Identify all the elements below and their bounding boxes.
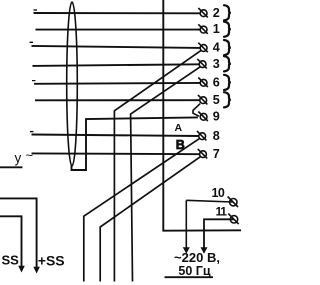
terminal 6 [198, 78, 208, 88]
brace 6 [224, 75, 231, 90]
terminal 3 [197, 59, 207, 69]
riser wire with diagonal to terminal 7 [100, 157, 200, 282]
wire 1 (to terminal 2) [34, 12, 201, 14]
brace 1 [224, 22, 231, 37]
svg-text:SS: SS [2, 252, 20, 267]
svg-text:~: ~ [26, 148, 34, 163]
svg-text:9: 9 [213, 109, 220, 123]
terminal 5 [198, 95, 208, 105]
jumper terminal 5 to terminal 9 [193, 104, 200, 117]
svg-text:A: A [175, 122, 183, 134]
tick artifact wire 3 [30, 41, 34, 43]
arrowhead SS [18, 266, 25, 273]
tick artifact wire 7 [30, 131, 34, 133]
tick artifact wire 5 [32, 80, 36, 82]
svg-text:7: 7 [213, 147, 220, 161]
svg-text:В: В [176, 138, 185, 152]
terminal 10 with wire and mains drop [186, 200, 232, 202]
svg-text:50 Гц: 50 Гц [178, 264, 210, 278]
wire 8 (to terminal 7) [32, 152, 200, 155]
terminal 8 [197, 131, 207, 141]
riser wire with diagonal to terminal 3 [131, 67, 201, 282]
underline 50 Hz [165, 276, 214, 278]
svg-text:3: 3 [213, 57, 220, 71]
left wire to +SS with down arrow [0, 198, 37, 268]
terminal 9 [198, 112, 208, 122]
brace 5 [224, 92, 231, 107]
svg-text:2: 2 [213, 6, 220, 20]
brace 4 [224, 40, 231, 55]
left wire to SS with down arrow [0, 216, 22, 267]
terminal 2 [198, 8, 208, 18]
wire 5 (to terminal 6) [34, 82, 200, 85]
wire 7 (to terminal 8) [32, 135, 200, 137]
wire 6 (to terminal 5) [35, 99, 200, 101]
brace 3 [224, 56, 231, 71]
shield drain wire to terminal 9 [72, 117, 198, 170]
svg-text:11: 11 [216, 205, 228, 219]
svg-text:4: 4 [213, 41, 220, 55]
svg-text:~220 В,: ~220 В, [174, 250, 220, 265]
terminal 4 [198, 43, 208, 53]
riser wire with diagonal to terminal 4 [114, 51, 200, 282]
svg-text:1: 1 [213, 22, 220, 36]
terminal 7 [198, 149, 208, 159]
svg-text:10: 10 [212, 186, 225, 200]
wire 2 (to terminal 1) [36, 29, 201, 31]
wire corner down from terminal 10 [185, 200, 187, 249]
wire at left edge under label y [0, 166, 23, 168]
svg-text:8: 8 [213, 129, 220, 143]
arrowhead +SS [33, 267, 40, 274]
terminal 1 [198, 24, 208, 34]
cable shield screen (oval) [67, 2, 78, 166]
vertical bus line x=163 [163, 0, 241, 231]
arrowhead mains L1 [183, 247, 190, 254]
riser wire with diagonal to terminal 8 [84, 139, 200, 282]
wire 4 (to terminal 3) [33, 64, 200, 66]
arrowhead mains L2 [201, 247, 208, 254]
brace 2 [224, 5, 231, 20]
terminal 11 with wire and mains drop [204, 219, 234, 249]
tick artifact wire 1 [34, 9, 38, 11]
svg-text:5: 5 [213, 93, 220, 107]
svg-text:+SS: +SS [38, 253, 65, 269]
svg-text:у: у [15, 151, 22, 166]
wire 3 (to terminal 4) [32, 46, 201, 48]
svg-text:6: 6 [213, 75, 220, 89]
